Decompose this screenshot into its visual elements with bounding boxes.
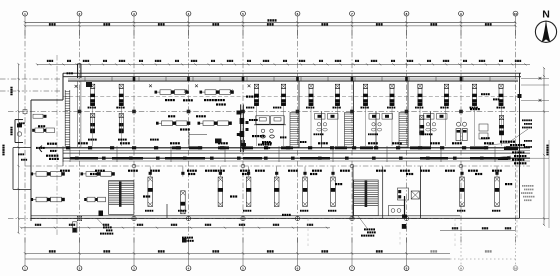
lower unit label xyxy=(243,210,245,212)
corridor annotation xyxy=(484,142,486,144)
corridor annotation low xyxy=(255,170,257,172)
column row B xyxy=(78,110,82,114)
fan coil unit upper x392.0 xyxy=(390,84,395,106)
unit label xyxy=(387,107,389,109)
column blob below row D xyxy=(402,224,407,229)
corridor annotation xyxy=(78,142,80,144)
upper pipe drop xyxy=(92,106,94,146)
room label lower left xyxy=(143,183,512,198)
unit label xyxy=(246,107,248,109)
corridor annotation low xyxy=(215,170,217,172)
faint vertical dash bottom xyxy=(454,219,456,248)
pipe drop xyxy=(247,167,250,177)
grid row A2 dash line left xyxy=(0,90,62,92)
fan coil unit lower x462 xyxy=(459,177,464,207)
lower unit label xyxy=(328,210,330,212)
grid bubble 1 top xyxy=(23,11,28,38)
corridor annotation low xyxy=(95,170,97,172)
grid bubble 1 bottom xyxy=(23,238,28,271)
right exterior wall xyxy=(518,73,522,218)
fan coil unit lower x497 xyxy=(494,177,499,207)
fan coil pair row1 bay3 xyxy=(200,90,234,95)
right leader lines xyxy=(488,143,511,158)
sub grid vertical x57 xyxy=(56,55,58,235)
corridor annotation low xyxy=(492,170,494,172)
pipe drop xyxy=(303,167,306,177)
top bay dimension 7 xyxy=(376,23,378,25)
bay 9 boxes xyxy=(470,108,490,139)
left wing unit row1 xyxy=(33,114,47,118)
pipe drop xyxy=(149,167,152,177)
column row B x25 xyxy=(23,110,27,114)
grid row A dash line left xyxy=(0,78,62,80)
core dark box xyxy=(215,139,222,144)
service shaft ladder x297.5 xyxy=(290,113,299,148)
lower unit label xyxy=(178,210,180,212)
wall lower x167 xyxy=(166,204,168,218)
upper pipe drop xyxy=(256,106,258,146)
left wing unit row2 xyxy=(32,128,54,133)
fan coil pair row1 bay2 xyxy=(155,90,189,95)
corridor annotation xyxy=(218,142,220,144)
riser label D-4 xyxy=(67,72,69,74)
fan coil pair row2 bay3 xyxy=(198,121,232,126)
right mid text labels xyxy=(522,119,532,147)
corridor annotation low xyxy=(312,170,314,172)
wash basins x406.5 xyxy=(423,123,437,136)
bottom bay dimension 6 xyxy=(321,250,323,252)
fan coil unit mid x421 xyxy=(419,116,424,136)
grid bubble 5 bottom xyxy=(241,238,246,271)
corridor annotation low xyxy=(340,170,342,172)
bottom grid dimension line lower xyxy=(25,258,450,260)
top bay dimension 5 xyxy=(267,23,269,25)
grid bubble 9 top xyxy=(459,11,464,38)
bottom bay dimension 2 xyxy=(103,250,105,252)
top bay dimension 3 xyxy=(158,23,160,25)
unit label xyxy=(415,107,417,109)
column row B xyxy=(187,110,191,114)
right dashed vertical xyxy=(516,165,518,240)
corridor left text xyxy=(46,143,59,160)
bottom bay dimension 4 xyxy=(212,250,214,252)
grid bubble 6 top xyxy=(295,11,300,38)
unit label xyxy=(273,107,275,109)
column row B xyxy=(241,110,245,114)
fan coil unit upper x92.6 xyxy=(90,84,95,106)
corridor annotation low2 xyxy=(188,173,190,175)
service shaft ladder x352 xyxy=(345,113,354,148)
corridor annotation low2 xyxy=(406,173,408,175)
upper pipe drop xyxy=(310,106,312,146)
left exterior wall xyxy=(30,100,32,221)
toilet room beside stair2 xyxy=(389,206,405,216)
column row B xyxy=(405,110,409,114)
grid bubble 7 top xyxy=(350,11,355,38)
toilet stalls x406.5 xyxy=(424,114,448,120)
corridor annotation low xyxy=(288,170,290,172)
left vertical dimension line xyxy=(18,64,20,233)
bottom bay dimension 5 xyxy=(267,250,269,252)
corridor wall stubs x63 x70 xyxy=(63,148,70,167)
upper pipe drop xyxy=(391,106,393,146)
top grid dimension line upper xyxy=(25,21,516,23)
wash basins x352 xyxy=(368,123,382,136)
column row D square xyxy=(77,216,81,220)
top bay dimension 9 xyxy=(485,23,487,25)
fan coil unit lower x220.4 xyxy=(218,177,223,207)
wing interior smudges xyxy=(18,153,27,160)
fan coil unit lower x276.7 xyxy=(274,177,279,207)
column row D circle xyxy=(132,216,136,220)
unit label xyxy=(333,107,335,109)
fan coil unit upper x337.5 xyxy=(335,84,340,106)
corridor annotation low2 xyxy=(475,173,477,175)
fan coil unit upper x121.3 xyxy=(119,84,124,106)
lower unit label xyxy=(457,210,459,212)
column row D circle xyxy=(350,216,354,220)
note mid bottom xyxy=(182,237,194,243)
corridor annotation low xyxy=(187,170,189,172)
fan coil unit lower offset x183 xyxy=(180,191,185,214)
fan coil unit mid x92.6 xyxy=(90,114,95,134)
plan top dimension line xyxy=(37,63,530,65)
lower-left unit pair row2 xyxy=(31,197,65,202)
grid line 5 vertical dash xyxy=(242,30,244,244)
pipe riser x189 xyxy=(180,128,207,148)
row2 label xyxy=(150,139,152,141)
grid row mid dash line xyxy=(63,95,519,97)
pipe drop xyxy=(181,167,184,177)
fan coil unit lower x248.6 xyxy=(246,177,251,207)
corridor annotation low xyxy=(420,170,422,172)
bottom bay dimension 8 xyxy=(430,250,432,252)
bay45 clusters xyxy=(249,119,306,143)
grid bubble 10 top xyxy=(513,11,518,38)
bottom grid dimension line upper xyxy=(25,252,450,254)
grid line 7 vertical dash xyxy=(351,30,353,244)
grid bubble 10 bottom xyxy=(513,236,518,271)
upper pipe drop xyxy=(337,106,339,146)
staircase 1 corner box xyxy=(99,211,104,217)
left shaft ladder xyxy=(65,90,70,147)
annotation cluster x188 xyxy=(168,99,206,117)
grid row D dash line xyxy=(8,218,460,220)
door bottom-left xyxy=(73,222,78,233)
left wing outer wall xyxy=(13,148,31,190)
row2 label xyxy=(88,139,90,141)
unit label xyxy=(470,107,472,109)
column row D circle xyxy=(241,216,245,220)
corridor annotation low2 xyxy=(310,173,312,175)
svg-text:N: N xyxy=(542,9,550,21)
corridor annotation xyxy=(170,142,172,144)
upper pipe drop xyxy=(419,106,421,146)
fan coil unit lower x305 xyxy=(302,177,307,207)
corridor annotation low xyxy=(60,170,62,172)
fan coil unit lower x150.2 xyxy=(148,177,153,207)
label bay3 xyxy=(215,99,217,101)
bottom bay dimension 9 xyxy=(485,250,487,252)
grid bubble 4 top xyxy=(186,11,191,38)
duct riser top-left xyxy=(78,64,81,78)
grid bubble 9 bottom xyxy=(459,236,464,271)
left wing label xyxy=(19,122,56,151)
top bay dimension 4 xyxy=(212,23,214,25)
north arrow xyxy=(535,9,556,43)
fan coil unit upper x474.5 xyxy=(472,84,477,106)
corridor duct band xyxy=(25,146,530,168)
unit label xyxy=(116,107,118,109)
toilet stalls x352 xyxy=(369,114,393,120)
corridor annotation low xyxy=(400,170,402,172)
lower-left unit pair row1 xyxy=(31,172,65,177)
bay wall x352 xyxy=(354,81,377,148)
top supply duct band xyxy=(68,77,518,81)
bay 9 circle pair xyxy=(457,122,467,126)
wall lower stair2 sides xyxy=(353,167,421,219)
unit label xyxy=(440,107,442,109)
svg-text:10: 10 xyxy=(514,267,518,271)
column row D circle xyxy=(295,216,299,220)
left upper wall step xyxy=(31,73,63,100)
top overall dimension 9750 xyxy=(267,19,269,21)
fan coil unit upper x311.0 xyxy=(309,84,314,106)
label right of unit 276 xyxy=(282,214,284,216)
top grid dimension line lower xyxy=(25,25,516,27)
valve x mark b xyxy=(230,90,233,93)
column row D circle xyxy=(404,216,408,220)
corridor annotation low xyxy=(376,170,378,172)
core wall vertical xyxy=(240,104,245,152)
grid line 9 vertical dash xyxy=(460,30,462,244)
corridor annotation low xyxy=(445,170,447,172)
upper pipe drop xyxy=(474,106,476,146)
corridor annotation xyxy=(452,142,454,144)
fan coil unit upper x501.0 xyxy=(499,84,504,106)
right margin clusters upper xyxy=(481,93,499,100)
bay wall x406.5 xyxy=(408,81,431,148)
wash basins x297.5 xyxy=(314,123,328,136)
bottom bay dimension 1 xyxy=(49,250,51,252)
pipe drop xyxy=(331,167,334,177)
unit label xyxy=(88,107,90,109)
fan coil unit mid x501 xyxy=(499,116,504,136)
core annotation xyxy=(204,96,264,138)
grid bubble 7 bottom xyxy=(350,238,355,271)
svg-text:10: 10 xyxy=(514,12,518,16)
column row B xyxy=(459,110,463,114)
grid bubble 4 bottom xyxy=(186,238,191,271)
fan coil unit upper x256 xyxy=(254,84,259,106)
right vertical dimension line xyxy=(543,68,545,225)
top bay dimension 6 xyxy=(321,23,323,25)
lower-left unit pair b row1 xyxy=(81,172,115,177)
corridor annotation low2 xyxy=(242,173,244,175)
bottom bay dimension 7 xyxy=(376,250,378,252)
column row D circle xyxy=(186,216,190,220)
lower-left unit pair b row2 xyxy=(84,197,105,202)
grid bubble 2 top xyxy=(77,11,82,38)
fan coil unit upper x420.0 xyxy=(418,84,423,106)
grid bubble 3 bottom xyxy=(132,238,137,271)
upper pipe drop xyxy=(283,106,285,146)
door blob top-left xyxy=(86,82,92,87)
grid line 1 vertical dash xyxy=(24,30,26,244)
grid bubble 6 bottom xyxy=(295,238,300,271)
fan coil pair row2 bay2 xyxy=(156,121,190,126)
riser at corridor grid 243 xyxy=(241,140,247,148)
lower unit label xyxy=(300,210,302,212)
corridor annotation xyxy=(392,142,394,144)
grid bubble 3 top xyxy=(132,11,137,38)
corridor annotation xyxy=(262,142,264,144)
grid line 3 vertical dash xyxy=(133,30,135,244)
grid bubble 5 top xyxy=(241,11,246,38)
bottom exterior wall xyxy=(31,216,520,219)
riser pipe right of stair2 xyxy=(402,196,407,218)
upper pipe drop xyxy=(120,106,122,146)
service shaft ladder x406.5 xyxy=(399,113,408,148)
staircase 1 xyxy=(109,181,134,215)
riser pipes down from duct xyxy=(78,81,81,147)
upper pipe drop xyxy=(365,106,367,146)
pipe drop xyxy=(219,167,222,177)
left wing AHU bracket xyxy=(15,120,23,143)
fan coil unit lower x333 xyxy=(330,177,335,207)
corridor annotation xyxy=(368,142,370,144)
bay 9 shaft pair xyxy=(456,129,467,141)
corridor annotation xyxy=(120,142,122,144)
pipe drop xyxy=(275,167,278,177)
column row B xyxy=(132,110,136,114)
corridor annotation low2 xyxy=(90,173,92,175)
grid bubble 2 bottom xyxy=(77,238,82,271)
corridor annotation low xyxy=(468,170,470,172)
grid row B dash line xyxy=(8,111,519,113)
corridor annotation low xyxy=(205,170,207,172)
top exterior wall xyxy=(63,73,521,77)
note bottom left xyxy=(97,219,113,235)
fan coil unit mid x121.3 xyxy=(119,114,124,134)
core toilet stalls xyxy=(254,116,286,149)
unit label xyxy=(361,107,363,109)
upper pipe drop xyxy=(501,106,503,146)
grid line 6 vertical dash xyxy=(297,30,299,244)
fan coil unit upper x446.5 xyxy=(444,84,449,106)
valve x mark a xyxy=(184,90,187,93)
column row B xyxy=(350,110,354,114)
upper pipe drop xyxy=(444,106,446,146)
top bay dimension 2 xyxy=(103,23,105,25)
toilet stalls x297.5 xyxy=(315,114,339,120)
fan coil unit upper x283 xyxy=(281,84,286,106)
bottom bay dimension 3 xyxy=(158,250,160,252)
top bay dimension 8 xyxy=(430,23,432,25)
grid line 8 vertical dash xyxy=(406,30,408,244)
note under stair2 xyxy=(358,216,376,237)
small room beside stair2 xyxy=(398,188,409,200)
elevator shaft xyxy=(411,191,419,199)
faint vertical dash bottom xyxy=(399,232,401,247)
lower unit label xyxy=(145,210,147,212)
fan coil unit upper x365.5 xyxy=(363,84,368,106)
upper valve x marks xyxy=(75,84,251,87)
row2 label xyxy=(118,139,120,141)
corridor annotation low xyxy=(240,170,242,172)
core wall fittings xyxy=(237,111,249,137)
column row B xyxy=(296,110,300,114)
corridor annotation xyxy=(318,142,320,144)
bay wall x297.5 xyxy=(299,81,322,148)
plan bottom interior dimension line xyxy=(21,227,330,229)
bottom grid dashed extension xyxy=(450,258,516,260)
grid bubble 8 top xyxy=(404,11,409,38)
pipe drop xyxy=(460,167,463,177)
grid bubble 8 bottom xyxy=(404,238,409,271)
grid line 2 vertical dash xyxy=(79,30,81,244)
unit label xyxy=(497,107,499,109)
label bay2 xyxy=(165,99,167,101)
corridor annotation low xyxy=(150,170,152,172)
faint vertical dash bottom xyxy=(307,219,309,248)
top bay dimension 1 xyxy=(49,23,51,25)
pipe drop xyxy=(495,167,498,177)
lower unit label xyxy=(492,210,494,212)
right dim extension lines xyxy=(520,77,550,219)
staircase 2 xyxy=(354,180,379,216)
grid line 4 vertical dash xyxy=(188,30,190,244)
unit label xyxy=(306,107,308,109)
corridor annotation low xyxy=(128,170,130,172)
right callout leader xyxy=(508,129,528,143)
right gray note block xyxy=(521,185,535,201)
right label cluster top xyxy=(500,141,526,165)
corridor annotation xyxy=(430,142,432,144)
grid line 10 vertical dash xyxy=(515,30,517,244)
